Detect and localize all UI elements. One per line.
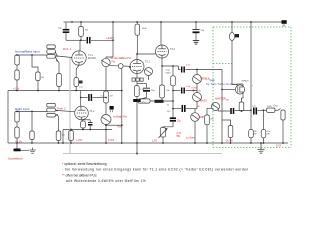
svg-text:1M: 1M <box>226 100 229 102</box>
potentiometer P3 small <box>145 68 153 76</box>
resistor R8 cathode <box>74 78 79 87</box>
svg-text:1k 5W: 1k 5W <box>226 139 234 142</box>
svg-text:VB: VB <box>282 26 286 28</box>
svg-text:Lo Gain: Lo Gain <box>186 137 195 140</box>
resistor R3 <box>36 72 40 81</box>
wire top supply bus <box>64 21 286 23</box>
supply RC for stage1 <box>63 22 113 57</box>
chassis bar <box>14 149 21 152</box>
wire HT right vertical <box>250 22 252 129</box>
svg-text:MID: MID <box>200 116 205 119</box>
lamp La1 <box>229 22 236 85</box>
svg-text:*: * <box>252 85 253 88</box>
resistor R24 cathode <box>81 121 86 128</box>
svg-text:no NormalBass Pot: no NormalBass Pot <box>110 57 131 60</box>
svg-text:T1.2: T1.2 <box>90 110 95 113</box>
tone stack <box>171 66 251 143</box>
wire x137 to bus <box>136 102 138 154</box>
wire ground bus channel2 local <box>63 129 112 131</box>
potentiometer P5 bass <box>193 93 202 102</box>
wire ground bus channel1 <box>8 90 122 92</box>
svg-text:1M: 1M <box>41 77 44 79</box>
potentiometer P2 <box>101 115 111 125</box>
resistor R19 input <box>15 127 19 138</box>
cathode network tube D <box>81 120 93 130</box>
wire bracket <box>55 109 57 112</box>
svg-text:Gain: Gain <box>210 78 216 82</box>
wire master bus vertical <box>221 70 223 144</box>
capacitor C13 electrolytic <box>170 117 176 119</box>
svg-text:no Bright Pot: no Bright Pot <box>113 116 127 119</box>
capacitor C1 electrolytic <box>65 22 67 29</box>
cathode network tube A <box>74 65 79 90</box>
svg-text:630V: 630V <box>166 73 172 75</box>
svg-text:+210V: +210V <box>106 36 114 40</box>
plate resistor tube B <box>135 22 156 60</box>
svg-text:0,5µ: 0,5µ <box>166 70 171 72</box>
resistor R5 grid stopper b <box>47 55 56 59</box>
wire <box>16 80 18 91</box>
svg-text:0,1µ: 0,1µ <box>186 86 191 88</box>
resistor R17 <box>267 108 276 112</box>
connector X1 <box>118 64 123 69</box>
wire <box>105 103 107 114</box>
svg-text:1,5V: 1,5V <box>152 140 157 143</box>
wire tone corner to treble cap <box>179 66 181 70</box>
capacitor C4 bypass <box>137 83 147 85</box>
resistor R25 <box>205 115 210 125</box>
svg-text:+1,5V: +1,5V <box>13 88 20 91</box>
tube D triode T1.2 <box>75 91 106 121</box>
svg-text:1,5k: 1,5k <box>79 87 83 89</box>
capacitor C11 coupling <box>88 94 90 101</box>
capacitor C5 treble <box>181 67 183 73</box>
resistor R1 input <box>15 55 19 65</box>
notes text block <box>62 162 249 183</box>
junction on gray bus <box>136 153 138 155</box>
svg-text:1M: 1M <box>62 135 65 137</box>
capacitor C7 mid <box>173 108 181 110</box>
wire cathode <box>161 58 163 85</box>
cathode network tube B <box>132 74 150 100</box>
svg-text:0 Volt: 0 Volt <box>108 139 114 142</box>
svg-text:1M: 1M <box>197 106 200 108</box>
wire wiper to tube B <box>110 65 119 67</box>
switch S1 bright <box>110 106 114 110</box>
volume pot chain <box>101 57 130 143</box>
output network <box>249 22 285 143</box>
wire grid to tube A <box>57 56 72 58</box>
svg-text:Right Input: Right Input <box>15 107 30 111</box>
svg-text:T2.1: T2.1 <box>145 61 150 64</box>
trimmer R13 <box>160 128 165 138</box>
wire ground bus main <box>8 142 288 144</box>
ground bar tube B cathode <box>133 99 141 102</box>
svg-text:- bei Verwendung nur eines Ein: - bei Verwendung nur eines Eingangs kann… <box>62 168 249 172</box>
wire from bus down <box>112 22 114 57</box>
potentiometer P6 mid <box>191 113 200 122</box>
svg-text:0,5µ: 0,5µ <box>197 90 202 92</box>
wire plate up to coupling <box>80 91 82 107</box>
svg-text:22µ: 22µ <box>177 120 182 122</box>
resistor R21 grid stopper a <box>47 103 56 107</box>
resistor R20 <box>30 131 34 140</box>
svg-text:Preh. 1: Preh. 1 <box>63 48 72 51</box>
resistor R9 <box>104 91 109 103</box>
svg-text:BASS: BASS <box>200 100 207 103</box>
capacitor C8 master out <box>218 110 230 111</box>
wire channel2 grid line <box>17 110 47 112</box>
capacitor C10 output <box>253 108 255 115</box>
resistor R6 1M grid <box>57 61 59 74</box>
wire <box>81 39 86 41</box>
svg-text:Normal/Bass Input: Normal/Bass Input <box>15 50 40 54</box>
green dashed PA box <box>213 27 291 148</box>
svg-text:2W: 2W <box>267 134 270 136</box>
resistor R22 grid stopper b <box>47 113 56 117</box>
svg-text:Sockelblech: Sockelblech <box>8 156 23 160</box>
filter capacitor C9 at bus <box>193 22 200 44</box>
svg-text:ECC83: ECC83 <box>88 57 96 60</box>
wire <box>37 81 39 91</box>
svg-text:Preh. 2: Preh. 2 <box>58 108 67 111</box>
ground symbol right <box>258 143 265 153</box>
junction dots <box>71 21 114 41</box>
svg-text:T2.2: T2.2 <box>170 48 175 51</box>
svg-text:+ 1,5V: + 1,5V <box>15 140 22 143</box>
resistor R29 <box>261 129 266 137</box>
svg-text:0,7A: 0,7A <box>276 145 281 148</box>
wire plate to bus <box>160 22 162 45</box>
wire plate <box>79 40 81 51</box>
potentiometer P4 treble <box>193 75 202 84</box>
resistor R23 1M grid <box>57 115 59 131</box>
svg-text:MASTER: MASTER <box>215 97 226 100</box>
tube C triode T3 <box>156 22 179 100</box>
svg-text:IRF820: IRF820 <box>242 81 250 83</box>
junction dots channel1 <box>16 54 60 91</box>
resistor R14 horizontal <box>138 99 150 103</box>
svg-text:** offen bei aktiven PUs: ** offen bei aktiven PUs <box>62 174 97 178</box>
capacitor C2 coupling <box>86 37 88 44</box>
svg-text:alle Widerstände 0,6W/5% oder: alle Widerstände 0,6W/5% oder MetFilm 1% <box>66 179 146 183</box>
resistor R2 input <box>15 70 19 80</box>
resistor R12 slope <box>172 66 174 76</box>
wire branch <box>31 111 33 131</box>
tube A triode T1.1 <box>72 51 86 65</box>
resistor R15 source <box>239 102 244 111</box>
capacitor C12 bypass <box>88 122 93 124</box>
resistor R18 input <box>15 111 19 122</box>
resistor R26 <box>69 130 74 144</box>
wire bracket to grid <box>55 52 57 57</box>
ground bar tube C cathode <box>155 100 164 103</box>
svg-text:Pot.: Pot. <box>112 60 116 63</box>
svg-text:Pot.: Pot. <box>118 126 122 129</box>
small boxes row <box>132 78 135 81</box>
channel2 input <box>15 103 75 143</box>
wire left edge vertical <box>7 91 9 144</box>
wire pot chain down <box>105 67 107 91</box>
wire channel1 grid line <box>17 54 47 56</box>
heater gray bottom bus <box>63 153 222 155</box>
svg-text:0,1µ: 0,1µ <box>101 96 106 98</box>
tube B triode T2 <box>130 60 153 81</box>
junction dots main bus <box>58 142 284 144</box>
resistor R7 plate <box>80 22 82 27</box>
wire branch to R3 <box>32 55 38 72</box>
jack J1 out <box>281 110 285 120</box>
MOSFET Q1 <box>222 84 245 111</box>
svg-text:* optional; siehe Beschreibung: * optional; siehe Beschreibung <box>62 162 107 166</box>
ground chassis symbols bottom left <box>17 143 36 153</box>
wire bright loop <box>106 68 122 143</box>
resistor R4 grid stopper a <box>47 45 56 49</box>
wire <box>16 65 18 70</box>
svg-text:0,5M: 0,5M <box>192 88 197 90</box>
potentiometer P7 master <box>212 103 220 111</box>
svg-text:1M: 1M <box>110 96 113 98</box>
resistor R28 <box>249 129 254 137</box>
wire to master pot <box>207 107 212 109</box>
svg-text:2W: 2W <box>253 134 256 136</box>
potentiometer P1 <box>106 57 113 58</box>
resistor R10 cathode <box>134 86 139 97</box>
heater gray vertical <box>69 58 71 154</box>
svg-text:Out: Out <box>273 104 277 108</box>
svg-text:+1,5V: +1,5V <box>76 139 83 142</box>
junction dot grid B <box>129 66 131 68</box>
capacitor C6 bass <box>173 90 181 92</box>
resistor R11 cathode <box>160 85 165 98</box>
resistor R16 <box>222 120 233 143</box>
terminal VB <box>282 20 287 24</box>
trimmer R13 <box>137 99 176 143</box>
